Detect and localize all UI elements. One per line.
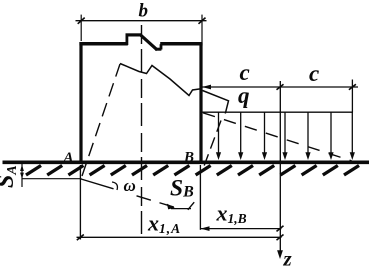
svg-text:q: q	[238, 83, 250, 108]
svg-text:SA: SA	[0, 165, 20, 188]
svg-text:SB: SB	[170, 176, 194, 202]
svg-text:B: B	[183, 150, 194, 166]
svg-text:z: z	[283, 247, 293, 268]
svg-text:c: c	[240, 60, 250, 85]
svg-text:c: c	[309, 61, 319, 86]
svg-text:x1,A: x1,A	[147, 211, 181, 237]
svg-text:x1,B: x1,B	[216, 201, 247, 227]
svg-text:A: A	[63, 150, 74, 166]
svg-text:b: b	[139, 1, 149, 22]
svg-text:ω: ω	[124, 176, 136, 195]
